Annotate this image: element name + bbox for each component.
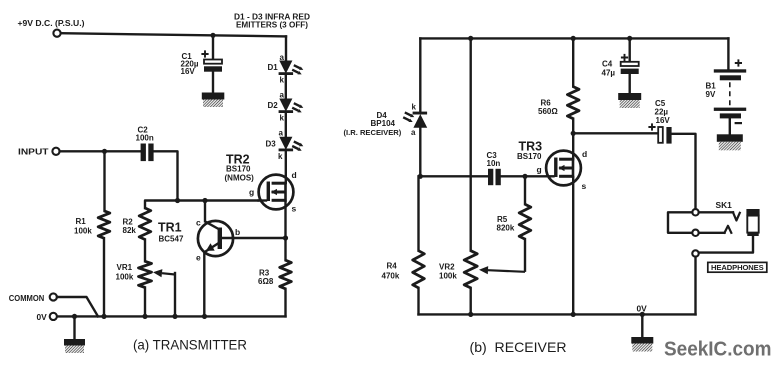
VR2 wiper arrow and wire to R5 — [488, 270, 525, 272]
resistor R2 82k — [139, 208, 151, 240]
junction: TR1 base / TR2 source / R3 — [283, 235, 288, 240]
junction: C2 branch on gate line — [175, 198, 180, 203]
wire INPUT to C2 — [60, 150, 141, 152]
wire B1 bottom lead — [729, 118, 731, 134]
junction: R1 on 0V rail — [101, 314, 106, 319]
wire COMMON to 0V rail — [57, 297, 98, 316]
junction: D4 / R4 / C3 node — [418, 174, 423, 179]
svg-text:TR1: TR1 — [158, 221, 182, 235]
svg-text:47µ: 47µ — [602, 69, 616, 78]
junction: ground stem on 0V rail — [72, 314, 77, 319]
wire ground stem — [73, 316, 75, 339]
svg-text:BP104: BP104 — [371, 119, 396, 128]
svg-text:0V: 0V — [637, 304, 648, 314]
svg-text:a: a — [279, 129, 284, 138]
wire receiver ground stem — [641, 314, 643, 337]
VR1 wiper arrow and wire to 0V rail — [162, 273, 175, 274]
wire C1 bottom lead — [212, 72, 214, 93]
svg-text:470k: 470k — [382, 272, 400, 281]
LED D3 infra-red emitter — [280, 137, 292, 149]
ground: below C1 — [202, 93, 225, 100]
wire +9V rail corner down to D1 anode — [285, 36, 287, 61]
terminal: INPUT — [52, 148, 59, 155]
wire SK1 sleeve contact down to 0V rail — [694, 257, 696, 315]
svg-text:(NMOS): (NMOS) — [225, 174, 255, 183]
junction: TR1 collector on gate line — [202, 198, 207, 203]
svg-text:(a) TRANSMITTER: (a) TRANSMITTER — [133, 337, 247, 353]
wire jack sleeve to SK1 sleeve contact — [699, 236, 753, 253]
emission arrows D3 — [294, 142, 300, 145]
wire TR1 collector up to gate line — [204, 201, 206, 222]
svg-text:d: d — [582, 149, 587, 159]
resistor R5 820k — [524, 176, 526, 204]
svg-text:a: a — [411, 128, 416, 137]
svg-text:k: k — [412, 103, 417, 112]
svg-text:VR2: VR2 — [439, 263, 455, 272]
svg-text:d: d — [292, 170, 297, 180]
wire gate line from R2 top to TR2 gate — [145, 201, 259, 209]
socket SK1 sleeve contact — [692, 250, 698, 256]
svg-text:BS170: BS170 — [226, 165, 251, 174]
label C5 plus — [648, 123, 655, 130]
resistor R4 470k — [417, 176, 419, 250]
potentiometer VR1 100k — [139, 261, 152, 287]
wire TR1 emitter down to 0V rail — [203, 252, 205, 316]
label C1 plus — [201, 50, 208, 57]
wire SK1 ring contact arm — [699, 232, 725, 234]
received light arrows D4 — [405, 112, 411, 115]
svg-text:100k: 100k — [116, 273, 134, 282]
svg-text:100k: 100k — [74, 227, 92, 236]
junction: VR2 on 0V rail — [468, 312, 473, 317]
resistor R1 100k — [103, 151, 105, 211]
svg-text:k: k — [280, 114, 285, 123]
battery B1 9V — [714, 69, 746, 72]
label B1 minus — [735, 122, 742, 124]
ground: below C4 — [618, 93, 641, 100]
junction: C4 top on +9V rail — [627, 36, 632, 41]
svg-text:e: e — [196, 253, 201, 263]
svg-text:b: b — [235, 227, 240, 237]
svg-text:VR1: VR1 — [117, 263, 133, 272]
ground: transmitter 0V — [64, 339, 85, 346]
wire D4 cathode lead from rail — [419, 38, 421, 112]
capacitor C3 10n — [488, 169, 493, 185]
wire C4 top lead — [629, 38, 631, 61]
svg-text:820k: 820k — [497, 224, 515, 233]
wire TR1 base to TR2 source node — [222, 237, 286, 239]
junction: TR3 drain / R6 / C5 node — [571, 131, 576, 136]
junction: VR1 wiper on 0V rail — [172, 314, 177, 319]
LED D2 infra-red emitter — [280, 99, 292, 111]
svg-text:a: a — [280, 91, 285, 100]
node: +9V supply rail (receiver) — [420, 37, 728, 39]
svg-text:R1: R1 — [76, 217, 87, 226]
wire drain node to C5 — [573, 132, 658, 134]
svg-text:c: c — [196, 218, 201, 228]
junction: R2/VR1 on 0V rail — [142, 314, 147, 319]
node: 0V rail (receiver) — [419, 313, 696, 315]
jack plug SK1 — [746, 209, 759, 216]
svg-text:COMMON: COMMON — [9, 294, 45, 303]
junction: VR2 top on +9V rail — [468, 36, 473, 41]
SK1 contact spring upper — [733, 212, 740, 220]
junction: R1 top on input line — [102, 149, 107, 154]
wire D3 cathode to TR2 drain — [285, 151, 287, 176]
svg-text:a: a — [280, 53, 285, 62]
terminal: COMMON — [50, 293, 57, 300]
junction: R6 top on +9V rail — [571, 36, 576, 41]
wire node to C3 — [420, 175, 488, 177]
wire SK1 tip jumper to ring contact — [668, 212, 692, 233]
svg-text:+9V D.C. (P.S.U.): +9V D.C. (P.S.U.) — [18, 18, 85, 28]
resistor R6 560R — [572, 38, 574, 86]
resistor R3 6R8 — [284, 238, 286, 260]
svg-text:560Ω: 560Ω — [538, 107, 558, 116]
capacitor C5 22u 16V — [658, 127, 663, 143]
wire battery B1 top lead — [727, 38, 729, 69]
svg-text:10n: 10n — [487, 159, 501, 168]
svg-text:100k: 100k — [439, 272, 457, 281]
svg-text:g: g — [249, 187, 254, 197]
photodiode D4 BP104 — [413, 112, 428, 115]
wire C2 to corner down to gate line — [154, 151, 178, 200]
capacitor C4 47u — [621, 62, 639, 66]
svg-text:D3: D3 — [266, 140, 277, 149]
svg-text:k: k — [280, 76, 285, 85]
socket SK1 tip contact — [692, 209, 698, 215]
svg-text:16V: 16V — [656, 116, 671, 125]
svg-text:9V: 9V — [706, 90, 716, 99]
wire SK1 tip contact arm — [699, 211, 733, 213]
svg-text:BC547: BC547 — [159, 235, 184, 244]
wire D2 cathode to D3 anode — [285, 113, 287, 137]
svg-text:SeekIC.com: SeekIC.com — [664, 338, 772, 361]
svg-text:R4: R4 — [387, 262, 398, 271]
LED D1 infra-red emitter — [280, 61, 292, 73]
wire TR3 drain lead up to R6 node — [572, 133, 574, 159]
junction: C1 to +9V rail — [210, 33, 215, 38]
terminal: +9V D.C. input — [53, 30, 60, 37]
svg-text:BS170: BS170 — [517, 152, 542, 161]
svg-text:HEADPHONES: HEADPHONES — [711, 263, 764, 272]
emission arrows D2 — [294, 103, 300, 106]
wire TR2 drain lead — [285, 176, 287, 183]
transistor TR3 BS170 mosfet — [546, 151, 581, 186]
capacitor C2 100n — [141, 144, 146, 162]
ground: below B1 — [717, 134, 743, 142]
svg-text:6Ω8: 6Ω8 — [258, 277, 274, 286]
wire C4 bottom lead — [629, 74, 631, 93]
wire C5 to SK1 tip contact — [672, 134, 696, 209]
svg-text:EMITTERS (3 OFF): EMITTERS (3 OFF) — [236, 21, 308, 30]
svg-text:16V: 16V — [181, 67, 196, 76]
svg-text:D2: D2 — [268, 101, 279, 110]
transistor TR2 BS170 NMOS mosfet — [259, 175, 294, 210]
wire TR3 gate lead — [547, 175, 554, 177]
wire VR1 bottom to 0V rail — [144, 288, 146, 317]
wire C1 top lead — [212, 35, 214, 59]
svg-text:(b) RECEIVER: (b) RECEIVER — [470, 339, 567, 355]
wire D1 cathode to D2 anode — [285, 75, 287, 99]
wire R5 bottom to VR2 wiper — [524, 239, 526, 271]
svg-text:(I.R. RECEIVER): (I.R. RECEIVER) — [344, 128, 402, 137]
svg-text:D1: D1 — [268, 63, 279, 72]
capacitor C1 220u 16V — [204, 60, 222, 64]
svg-text:g: g — [537, 165, 542, 175]
node: 0V rail (transmitter) — [57, 315, 286, 317]
junction: 0V ground stem — [640, 312, 645, 317]
potentiometer VR2 100k — [470, 38, 472, 250]
label HEADPHONES boxed — [708, 262, 767, 272]
label C4 plus — [621, 54, 628, 61]
wire TR3 source lead down to 0V rail — [572, 177, 574, 314]
socket SK1 ring contact — [692, 230, 698, 236]
junction: R5 / TR3 gate — [522, 174, 527, 179]
svg-text:SK1: SK1 — [716, 200, 733, 210]
node: +9V supply rail (transmitter) — [61, 33, 287, 36]
wire TR2 source lead down — [284, 201, 286, 238]
wire D4 anode down to C3 line — [419, 127, 421, 176]
terminal: 0V — [50, 313, 57, 320]
ground: receiver 0V — [631, 337, 653, 344]
transistor TR1 BC547 — [198, 221, 233, 256]
svg-text:82k: 82k — [123, 226, 137, 235]
wire TR2 gate lead — [259, 199, 267, 201]
junction: TR3 source on 0V rail — [571, 312, 576, 317]
emission arrows D1 — [294, 65, 300, 68]
label B1 plus — [735, 59, 742, 66]
wire C3 to R5 junction and TR3 gate — [501, 175, 547, 177]
svg-text:C4: C4 — [602, 60, 613, 69]
svg-text:s: s — [582, 181, 587, 191]
svg-text:s: s — [292, 204, 297, 214]
svg-text:INPUT: INPUT — [18, 147, 49, 157]
SK1 contact spring lower — [725, 226, 732, 233]
svg-text:0V: 0V — [37, 312, 48, 322]
wire R2 bottom to VR1 top — [144, 240, 146, 262]
junction: TR1 emitter on 0V rail — [202, 314, 207, 319]
svg-text:100n: 100n — [136, 134, 154, 143]
svg-text:k: k — [278, 152, 283, 161]
